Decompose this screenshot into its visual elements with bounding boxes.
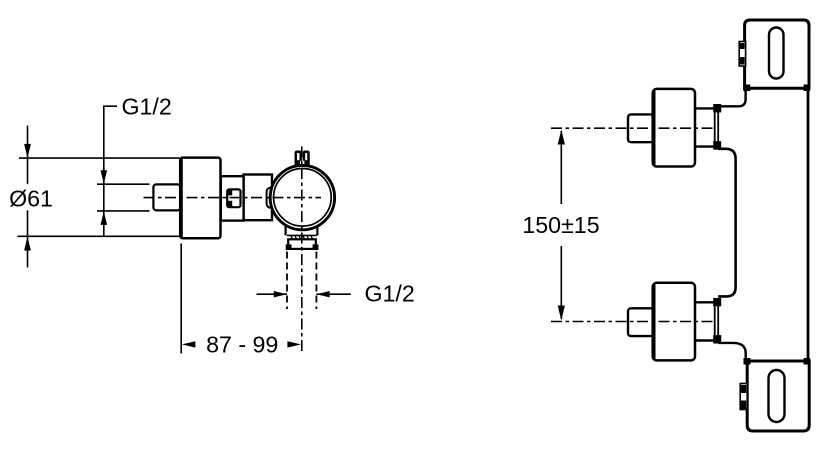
G1/2 inlet arrow down bbox=[101, 170, 108, 184]
bottom knob thick left edge bbox=[653, 284, 656, 359]
nut corner marks bbox=[286, 244, 292, 250]
O61 extension line bottom bbox=[18, 235, 180, 237]
flange tab left of body circle bbox=[267, 188, 277, 208]
outlet projection dashed line right bbox=[315, 252, 317, 310]
O61 arrow up bbox=[24, 237, 31, 251]
thread hatch marks bbox=[291, 236, 313, 240]
horizontal centerline left view bbox=[144, 197, 322, 199]
top knob body bbox=[653, 89, 695, 167]
G1/2 inlet extension line top bbox=[97, 183, 150, 185]
body neck lower (to bottom plate) bbox=[718, 343, 746, 361]
svg-text:150±15: 150±15 bbox=[522, 212, 599, 238]
top outlet stub bbox=[296, 152, 309, 167]
O61 extension line top bbox=[19, 157, 180, 159]
top knob stem bbox=[695, 108, 716, 146]
svg-text:G1/2: G1/2 bbox=[365, 280, 415, 306]
cartridge housing bbox=[244, 175, 273, 221]
bottom stem joint marks bbox=[713, 298, 721, 306]
top knob centerline bbox=[551, 127, 715, 129]
top knob thick left edge bbox=[653, 91, 656, 166]
set screw on adapter bbox=[227, 189, 240, 207]
outlet nut bbox=[288, 239, 316, 249]
bottom knob stem bbox=[695, 302, 716, 340]
top plate tab bbox=[739, 42, 745, 67]
150 arrow down bbox=[558, 306, 565, 321]
87-99 right arrow bbox=[287, 341, 301, 347]
bottom knob tip bbox=[628, 308, 654, 336]
bottom knob body bbox=[653, 283, 695, 361]
bottom plate tab bbox=[740, 384, 747, 410]
top stub base marks bbox=[295, 160, 300, 167]
vertical centerline left view bbox=[301, 147, 303, 352]
body right edge bbox=[807, 21, 810, 431]
outlet projection dashed line left bbox=[286, 252, 288, 310]
valve body outer circle bbox=[270, 165, 334, 229]
bottom plate slot bbox=[769, 370, 785, 422]
svg-text:G1/2: G1/2 bbox=[122, 94, 172, 120]
dimension G1/2 (outlet) left arrow bbox=[257, 293, 288, 295]
top stem joint marks bbox=[713, 104, 721, 112]
valve body inner circle bbox=[274, 169, 332, 227]
top wall plate bbox=[745, 20, 809, 88]
body neck upper (to top plate) bbox=[718, 88, 745, 107]
knob thick left edge bbox=[180, 158, 183, 237]
inlet pipe bbox=[153, 184, 180, 210]
dimension O61 line bbox=[27, 126, 29, 268]
adapter section between knob and housing bbox=[221, 176, 244, 220]
dimension G1/2 (outlet) right arrow bbox=[316, 293, 350, 295]
bottom knob centerline bbox=[551, 321, 715, 323]
screw corner marks bbox=[227, 190, 232, 196]
bottom knob washer bbox=[715, 304, 719, 338]
150 arrow up bbox=[558, 130, 565, 145]
top plate slot bbox=[769, 28, 784, 79]
G1/2 inlet extension line bottom bbox=[97, 210, 150, 212]
body left edge between knobs bbox=[718, 149, 735, 297]
dimension G1/2 (inlet) leader line bbox=[104, 106, 117, 236]
threaded band bbox=[287, 235, 317, 239]
top knob washer bbox=[715, 111, 719, 145]
87-99 left arrow bbox=[182, 341, 196, 347]
G1/2 inlet arrow up bbox=[101, 211, 108, 225]
87-99 extension line bbox=[180, 244, 182, 354]
O61 arrow down bbox=[24, 144, 31, 158]
knob (side view) bbox=[180, 158, 220, 239]
svg-text:87 - 99: 87 - 99 bbox=[206, 331, 278, 357]
bottom wall plate bbox=[747, 361, 809, 431]
bottom plate top joint marks bbox=[744, 358, 751, 365]
top knob tip bbox=[628, 114, 654, 142]
top plate bottom joint marks bbox=[743, 85, 750, 92]
svg-text:Ø61: Ø61 bbox=[9, 186, 53, 212]
dimension 150+-15 line bbox=[560, 131, 562, 319]
bottom collar below circle bbox=[286, 226, 318, 236]
